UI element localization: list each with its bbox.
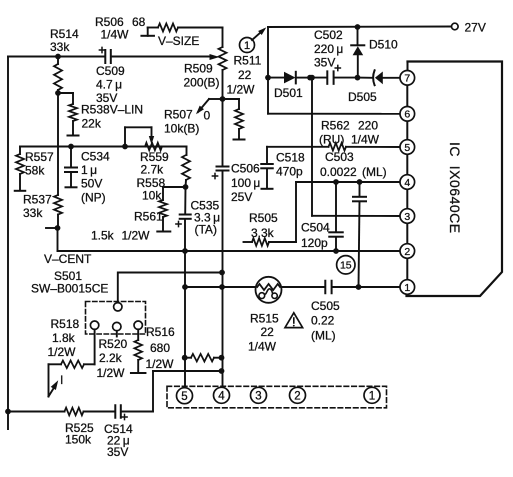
label C504 <box>301 221 330 251</box>
svg-text:68: 68 <box>132 15 146 29</box>
node circled 1 <box>240 38 255 53</box>
label R506 <box>95 15 146 42</box>
svg-text:SW–B0015CE: SW–B0015CE <box>31 282 108 296</box>
wire R514 to R537 <box>57 93 59 195</box>
wire V11 <box>309 75 315 216</box>
switch contact c <box>134 321 142 340</box>
node R537 bottom <box>46 225 60 231</box>
svg-text:27V: 27V <box>465 20 486 34</box>
svg-text:(TA): (TA) <box>195 223 217 237</box>
wire row B a <box>268 77 284 79</box>
svg-text:1.5k: 1.5k <box>91 229 115 243</box>
wire row C <box>268 113 400 115</box>
pin 3 IC <box>400 209 415 224</box>
label D510 <box>369 38 398 52</box>
node V7 row H <box>182 284 188 290</box>
capacitor C535 <box>176 187 191 388</box>
label S501 <box>54 269 82 283</box>
pin 5 IC <box>400 140 415 155</box>
svg-text:2.2k: 2.2k <box>99 351 123 365</box>
svg-text:25V: 25V <box>231 190 252 204</box>
wire V10 <box>295 182 297 242</box>
label R515 <box>248 312 279 354</box>
node V7 R516 <box>182 355 188 361</box>
resistor R518 <box>49 361 95 397</box>
svg-text:(ML): (ML) <box>362 165 387 179</box>
label C535 <box>191 199 221 237</box>
svg-text:3.3k: 3.3k <box>251 226 275 240</box>
svg-text:220: 220 <box>358 119 378 133</box>
label R516 <box>146 325 176 371</box>
resistor R505 <box>244 238 297 246</box>
svg-text:R516: R516 <box>146 325 175 339</box>
connector pin 2 <box>290 387 306 403</box>
wire top right <box>268 24 451 30</box>
svg-text:R562: R562 <box>321 119 350 133</box>
svg-text:7: 7 <box>404 73 410 85</box>
label R518 <box>48 317 80 359</box>
label C509 value <box>96 64 125 105</box>
capacitor C503 <box>353 182 366 287</box>
arrow circled 1 <box>252 27 266 40</box>
svg-text:C518: C518 <box>276 151 305 165</box>
node V8 row L <box>219 270 225 276</box>
switch contact b <box>113 322 121 336</box>
wire R515 to C505 <box>282 286 325 288</box>
resistor R525 <box>65 408 115 416</box>
wire row H left <box>185 286 256 288</box>
svg-text:D505: D505 <box>348 90 377 104</box>
svg-text:R505: R505 <box>249 211 278 225</box>
label R525 <box>65 421 94 447</box>
diode D501 <box>284 72 313 84</box>
svg-text:R507: R507 <box>164 108 193 122</box>
label V-CENT <box>44 252 92 266</box>
wiper loop R559 <box>125 127 154 146</box>
svg-text:R538V–LIN: R538V–LIN <box>81 103 143 117</box>
label C514 <box>104 422 133 459</box>
svg-text:1/2W: 1/2W <box>97 366 126 380</box>
svg-text:50V: 50V <box>81 177 102 191</box>
svg-text:(ML): (ML) <box>311 329 336 343</box>
svg-text:R537: R537 <box>23 193 52 207</box>
svg-text:0: 0 <box>204 108 211 122</box>
svg-text:1: 1 <box>404 282 410 294</box>
resistor R557 <box>16 147 24 191</box>
svg-text:C509: C509 <box>96 64 125 78</box>
label R557 <box>25 150 54 178</box>
svg-text:200(B): 200(B) <box>184 75 220 89</box>
label R538 <box>81 103 143 131</box>
connector pin 4 <box>214 387 230 403</box>
wire pot node down <box>222 99 224 166</box>
svg-text:22: 22 <box>261 325 275 339</box>
svg-text:2.7k: 2.7k <box>141 163 165 177</box>
resistor R558 <box>182 147 190 190</box>
label R509 <box>184 61 220 89</box>
svg-text:1/4W: 1/4W <box>101 28 130 42</box>
svg-text:C505: C505 <box>311 299 340 313</box>
svg-text:100 μ: 100 μ <box>231 176 260 190</box>
svg-text:3: 3 <box>404 211 410 223</box>
node V8 R516 <box>219 355 225 361</box>
svg-text:R557: R557 <box>25 150 54 164</box>
svg-text:V–CENT: V–CENT <box>44 252 92 266</box>
svg-text:0.22: 0.22 <box>311 314 335 328</box>
wire bottom rail a <box>8 411 65 413</box>
ground C534 <box>66 186 77 188</box>
resistor R538 <box>69 104 77 135</box>
svg-text:1 μ: 1 μ <box>81 163 97 177</box>
diode D510 <box>351 27 364 78</box>
resistor R520 <box>134 340 142 372</box>
label R514 <box>50 27 79 54</box>
wire to row G <box>58 228 400 251</box>
label C518 <box>276 151 305 179</box>
label IC IX0640CE <box>447 142 463 234</box>
svg-text:120p: 120p <box>301 236 328 250</box>
switch S501 box <box>86 302 146 335</box>
wire row D right <box>267 146 400 148</box>
diode D505 <box>358 70 401 85</box>
connector pin 5 <box>177 388 193 404</box>
capacitor C518 <box>261 147 273 188</box>
arrow I <box>49 373 64 397</box>
wire V16 <box>152 371 154 412</box>
node V8 row H <box>219 284 225 290</box>
svg-text:(RU): (RU) <box>319 133 344 147</box>
label R511 <box>227 54 262 97</box>
capacitor C514 <box>115 405 153 419</box>
svg-text:0.0022: 0.0022 <box>320 165 357 179</box>
capacitor C509 <box>99 47 213 63</box>
svg-text:2: 2 <box>294 390 300 402</box>
svg-text:C503: C503 <box>325 150 354 164</box>
wire row I <box>153 370 222 372</box>
connector pin 1 <box>364 387 380 403</box>
node pot bottom <box>220 96 226 102</box>
resistor R561 <box>159 187 186 231</box>
svg-text:35V: 35V <box>314 56 335 70</box>
resistor R511 <box>223 99 244 139</box>
svg-text:33k: 33k <box>50 40 70 54</box>
label D505 <box>348 90 377 104</box>
label V-SIZE <box>158 34 199 48</box>
svg-text:1: 1 <box>244 40 250 52</box>
switch S501 common <box>114 303 122 311</box>
wire R538 branch <box>58 93 73 104</box>
svg-text:1: 1 <box>369 390 375 402</box>
svg-text:6: 6 <box>404 109 410 121</box>
ground R538 <box>68 135 79 137</box>
terminal 27V <box>452 23 459 30</box>
pin 1 IC <box>400 280 415 295</box>
svg-text:2: 2 <box>404 246 410 258</box>
svg-text:680: 680 <box>150 341 170 355</box>
svg-text:5: 5 <box>404 142 410 154</box>
label C506 <box>231 162 260 205</box>
svg-text:5: 5 <box>181 391 187 403</box>
svg-text:1/2W: 1/2W <box>227 83 256 97</box>
wire row D left <box>20 144 187 150</box>
ground R520 <box>131 372 146 374</box>
svg-text:1/2W: 1/2W <box>122 229 151 243</box>
wiper arrow R509 <box>210 54 220 60</box>
label C505 <box>311 299 340 343</box>
svg-text:R514: R514 <box>50 27 79 41</box>
fusible resistor R515 <box>256 277 282 303</box>
svg-text:C506: C506 <box>231 162 260 176</box>
capacitor C504 <box>329 182 343 254</box>
svg-text:C534: C534 <box>81 150 110 164</box>
svg-text:1/2W: 1/2W <box>146 357 175 371</box>
node circled 15 <box>337 256 355 274</box>
svg-text:1/4W: 1/4W <box>351 133 380 147</box>
svg-text:220 μ: 220 μ <box>314 42 343 56</box>
label R520 <box>97 337 128 380</box>
pin 6 IC <box>400 107 415 122</box>
pin 2 IC <box>400 244 415 259</box>
label C534 <box>81 150 110 205</box>
svg-text:470p: 470p <box>276 165 303 179</box>
stub R506 left <box>141 28 158 36</box>
stub R557 bottom <box>15 190 26 192</box>
svg-text:33k: 33k <box>23 206 43 220</box>
label R561 <box>91 209 163 242</box>
svg-text:1.8k: 1.8k <box>52 331 76 345</box>
svg-text:IC IX0640CE: IC IX0640CE <box>447 142 463 234</box>
label C502 <box>314 28 343 70</box>
pin 7 IC <box>400 71 415 86</box>
wire switch riser <box>118 273 222 303</box>
resistor R559 <box>145 143 187 151</box>
svg-text:4.7 μ: 4.7 μ <box>96 78 122 92</box>
svg-text:150k: 150k <box>65 433 92 447</box>
resistor R537 <box>54 195 62 228</box>
svg-text:R561: R561 <box>134 209 163 223</box>
resistor R562 <box>329 143 347 151</box>
capacitor C502 <box>327 65 360 83</box>
svg-text:3: 3 <box>255 390 261 402</box>
svg-text:1/2W: 1/2W <box>48 345 77 359</box>
pin 4 IC <box>400 175 415 190</box>
svg-text:22: 22 <box>238 68 252 82</box>
resistor R506 <box>158 24 223 32</box>
wire V9 <box>265 27 271 114</box>
label R507 <box>164 108 211 136</box>
connector box <box>167 386 387 408</box>
svg-text:R509: R509 <box>184 61 213 75</box>
warning triangle <box>285 313 303 328</box>
svg-text:C504: C504 <box>301 221 330 235</box>
label 27V <box>465 20 486 34</box>
switch contact a <box>90 321 98 364</box>
capacitor C534 <box>65 147 77 187</box>
capacitor C505 <box>325 281 399 294</box>
svg-text:10k(B): 10k(B) <box>164 122 199 136</box>
svg-text:58k: 58k <box>25 164 45 178</box>
stub C518 bottom <box>262 188 273 190</box>
svg-text:35V: 35V <box>107 445 128 459</box>
svg-text:D501: D501 <box>274 86 303 100</box>
svg-text:D510: D510 <box>369 38 398 52</box>
resistor R514 <box>54 57 62 96</box>
label R562 <box>319 119 380 147</box>
label R559 <box>140 150 169 177</box>
label SW-B0015CE <box>31 282 108 296</box>
svg-text:22k: 22k <box>82 117 102 131</box>
svg-text:15: 15 <box>340 260 352 272</box>
capacitor C506 <box>212 167 228 388</box>
svg-text:4: 4 <box>218 390 225 402</box>
ground R561 <box>157 231 170 233</box>
svg-text:R515: R515 <box>250 312 279 326</box>
wire node to C509 <box>8 54 105 60</box>
label C503 <box>320 150 387 179</box>
resistor R516 <box>185 354 222 362</box>
trimmer arrow R507 <box>196 99 223 114</box>
svg-text:R518: R518 <box>51 317 80 331</box>
svg-text:(NP): (NP) <box>81 191 106 205</box>
svg-text:4: 4 <box>404 177 410 189</box>
node V7 row G <box>182 248 188 254</box>
svg-text:V–SIZE: V–SIZE <box>158 34 199 48</box>
svg-text:1/4W: 1/4W <box>248 340 277 354</box>
potentiometer R509 <box>219 28 227 100</box>
IC U501 outline <box>407 62 503 297</box>
wire left rail <box>5 57 11 430</box>
svg-text:I: I <box>60 373 63 387</box>
svg-text:R520: R520 <box>99 337 128 351</box>
svg-text:C502: C502 <box>314 28 343 42</box>
node V8 row I <box>219 368 225 374</box>
wire row E <box>296 179 401 185</box>
wire row B b <box>310 77 327 79</box>
wire row F <box>312 215 401 217</box>
ground R511 <box>234 139 245 141</box>
label R558 <box>137 176 166 203</box>
connector pin 3 <box>251 387 267 403</box>
label R537 <box>23 193 52 221</box>
svg-text:R511: R511 <box>234 54 262 68</box>
label D501 <box>274 86 303 100</box>
label R505 <box>249 211 278 240</box>
